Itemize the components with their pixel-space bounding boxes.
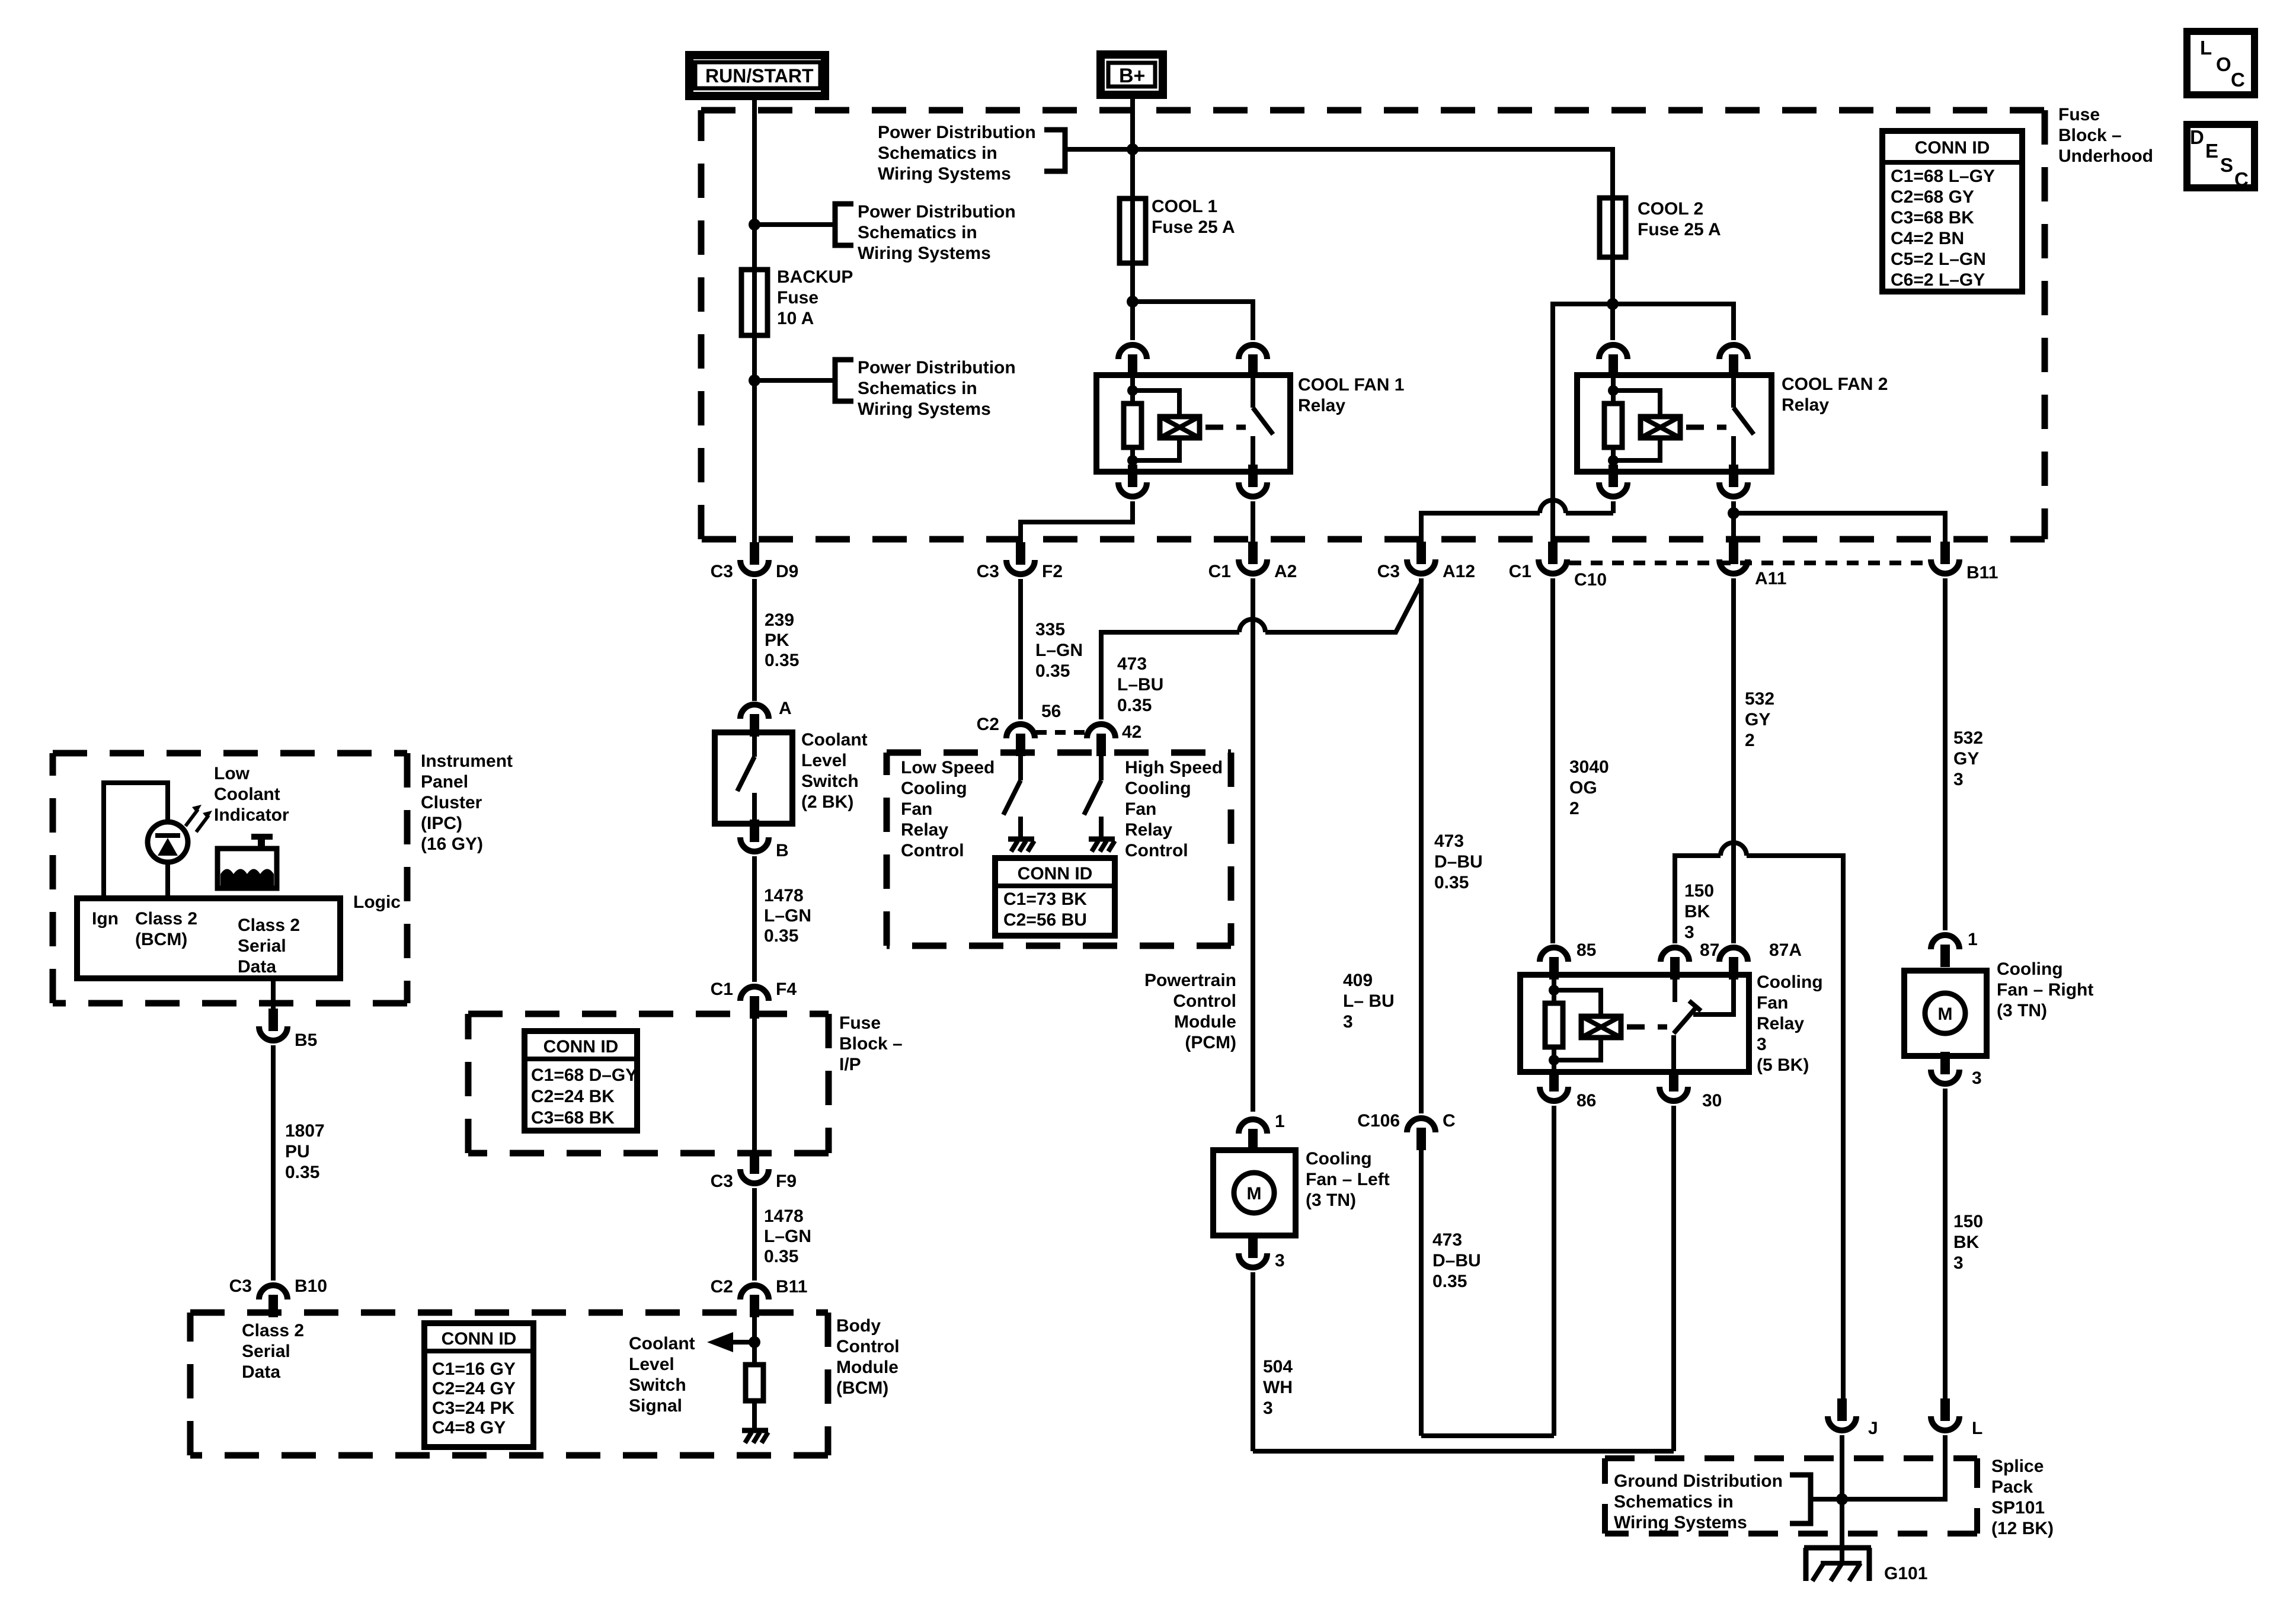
svg-text:Ign: Ign: [92, 909, 119, 929]
svg-text:Coolant: Coolant: [214, 785, 280, 804]
svg-text:Splice: Splice: [1991, 1457, 2044, 1476]
svg-text:GY: GY: [1745, 710, 1770, 729]
node relay 1 coil bottom junction: [1127, 455, 1138, 466]
fuse COOL 1 25 A: [1120, 199, 1146, 263]
connector C3 A12: [1416, 542, 1426, 564]
svg-text:Control: Control: [1173, 991, 1236, 1011]
svg-text:CONN ID: CONN ID: [442, 1329, 517, 1349]
svg-text:Level: Level: [629, 1355, 674, 1374]
svg-text:150: 150: [1953, 1212, 1983, 1231]
svg-text:COOL FAN 2: COOL FAN 2: [1782, 375, 1888, 394]
svg-text:OG: OG: [1569, 778, 1597, 798]
relay 2 coil resistor: [1611, 375, 1616, 404]
svg-text:Signal: Signal: [629, 1396, 682, 1416]
svg-text:Schematics in: Schematics in: [858, 379, 977, 398]
wire branch to B11: [1734, 513, 1945, 543]
svg-text:Class 2: Class 2: [242, 1321, 304, 1340]
wire 30 down to 504 WH run: [1671, 1106, 1676, 1451]
wire A12 down to C106: [1419, 578, 1424, 1113]
relay 3 coil-switch link (dashed): [1627, 1025, 1667, 1030]
svg-text:3: 3: [1684, 923, 1694, 942]
svg-text:COOL 2: COOL 2: [1638, 199, 1703, 219]
svg-text:C2=24 GY: C2=24 GY: [432, 1379, 516, 1398]
svg-text:I/P: I/P: [839, 1055, 861, 1074]
svg-text:Relay: Relay: [1757, 1014, 1804, 1033]
wire B down to F4 (1478 L-GN): [752, 856, 757, 982]
svg-text:S: S: [2220, 154, 2233, 176]
svg-text:C2: C2: [977, 715, 999, 734]
wire fan right down to splice L (150 BK): [1943, 1089, 1948, 1400]
relay 2 coil-switch link (dashed): [1686, 425, 1726, 430]
svg-text:335: 335: [1035, 620, 1065, 639]
svg-text:409: 409: [1343, 971, 1373, 990]
svg-text:3: 3: [1343, 1012, 1353, 1032]
brace power distribution ref 3: [835, 360, 853, 401]
wire L to splice node: [1842, 1435, 1945, 1499]
logic box IPC: [77, 898, 340, 978]
svg-text:3: 3: [1263, 1398, 1273, 1418]
svg-text:Schematics in: Schematics in: [858, 223, 977, 242]
wire F4 to F9 inside fuse block: [752, 1016, 757, 1153]
wire brace to splice node: [1811, 1497, 1842, 1502]
svg-text:3: 3: [1953, 1253, 1964, 1273]
connector C2 56: [1016, 734, 1025, 756]
svg-text:473: 473: [1117, 654, 1147, 674]
connector pin relay 2 switch bottom: [1729, 465, 1738, 487]
svg-text:(5 BK): (5 BK): [1757, 1055, 1809, 1075]
svg-text:WH: WH: [1263, 1378, 1293, 1397]
connector B coolant level switch: [750, 820, 759, 842]
svg-text:Serial: Serial: [242, 1342, 290, 1361]
connector row dotted line C10-A11-B11: [1569, 561, 1929, 565]
svg-text:C3=24 PK: C3=24 PK: [432, 1398, 515, 1418]
svg-text:Fan – Left: Fan – Left: [1306, 1170, 1390, 1189]
svg-text:3: 3: [1972, 1068, 1982, 1088]
svg-text:C1=73 BK: C1=73 BK: [1003, 889, 1087, 909]
wire splice to G101: [1840, 1499, 1844, 1564]
relay 3 switch blade: [1674, 1007, 1696, 1033]
relay 3 coil resistor: [1552, 975, 1556, 1003]
svg-text:B: B: [776, 841, 789, 860]
fuse COOL 2 25 A: [1600, 198, 1626, 257]
svg-text:Schematics in: Schematics in: [878, 143, 997, 163]
svg-text:GY: GY: [1953, 749, 1979, 769]
component coolant level switch box: [715, 732, 792, 824]
connector L splice pack: [1940, 1398, 1950, 1421]
connector pin relay 2 coil top: [1609, 354, 1618, 377]
connector C1 F4: [750, 996, 759, 1019]
svg-text:E: E: [2205, 140, 2218, 162]
svg-text:Relay: Relay: [1782, 395, 1829, 415]
relay cooling fan relay 3 box: [1520, 975, 1749, 1072]
svg-text:C4=2 BN: C4=2 BN: [1891, 229, 1964, 248]
svg-text:473: 473: [1434, 831, 1464, 851]
svg-text:C1=68 L–GY: C1=68 L–GY: [1891, 167, 1995, 186]
coolant level switch contacts: [752, 735, 757, 757]
svg-text:1: 1: [1968, 930, 1978, 949]
node relay 2 coil bottom junction: [1608, 455, 1619, 466]
node relay 3 coil bottom junction: [1549, 1055, 1559, 1065]
wire fan left to 504 WH run: [1251, 1272, 1255, 1451]
wire C106 down (473 D-BU): [1419, 1149, 1424, 1436]
svg-text:Fan: Fan: [901, 799, 932, 819]
svg-text:Cooling: Cooling: [1997, 959, 2063, 979]
svg-text:C2=24 BK: C2=24 BK: [531, 1087, 615, 1106]
svg-text:Cluster: Cluster: [421, 793, 482, 812]
svg-text:C1: C1: [1509, 562, 1531, 581]
svg-text:Wiring Systems: Wiring Systems: [1614, 1513, 1747, 1532]
relay COOL FAN 1 box: [1096, 375, 1290, 472]
svg-text:2: 2: [1745, 731, 1755, 750]
connector 1 cooling fan left: [1248, 1129, 1258, 1151]
svg-text:0.35: 0.35: [764, 926, 798, 946]
connector C3 F9: [750, 1151, 759, 1174]
svg-text:504: 504: [1263, 1357, 1293, 1377]
dashed box Instrument Panel Cluster: [53, 750, 407, 757]
svg-text:A12: A12: [1443, 562, 1475, 581]
wire Ign loop in IPC: [104, 783, 168, 898]
svg-text:(BCM): (BCM): [135, 930, 187, 949]
power feed box RUN/START: [689, 55, 825, 96]
connector C106 C: [1416, 1128, 1426, 1150]
svg-text:Low Speed: Low Speed: [901, 758, 994, 777]
svg-text:F2: F2: [1042, 562, 1063, 581]
svg-text:Fuse 25 A: Fuse 25 A: [1638, 220, 1721, 239]
svg-text:Wiring Systems: Wiring Systems: [878, 164, 1011, 184]
svg-text:0.35: 0.35: [1035, 661, 1070, 681]
svg-text:1807: 1807: [285, 1121, 325, 1141]
wire B5 down to B10 (1807 PU): [271, 1045, 276, 1281]
svg-text:L: L: [1972, 1419, 1982, 1438]
svg-text:BK: BK: [1684, 902, 1710, 921]
svg-text:(PCM): (PCM): [1185, 1033, 1236, 1052]
power feed box B+: [1101, 55, 1163, 95]
indicator lamp low coolant (LED): [148, 822, 188, 862]
svg-text:(IPC): (IPC): [421, 814, 462, 833]
svg-text:30: 30: [1702, 1091, 1722, 1110]
CONN ID table BCM: [424, 1323, 533, 1447]
svg-text:0.35: 0.35: [765, 651, 799, 670]
svg-text:Control: Control: [901, 841, 964, 860]
wire C10 down to relay 3 coil 85 (3040 OG 2): [1550, 578, 1555, 943]
svg-text:3: 3: [1953, 770, 1964, 789]
svg-text:42: 42: [1122, 722, 1141, 742]
svg-text:B11: B11: [776, 1277, 807, 1297]
svg-text:J: J: [1868, 1419, 1878, 1438]
svg-text:10 A: 10 A: [777, 309, 814, 328]
svg-text:PU: PU: [285, 1142, 310, 1161]
svg-text:Module: Module: [1174, 1012, 1236, 1032]
svg-text:C2=68 GY: C2=68 GY: [1891, 187, 1974, 207]
svg-text:(12 BK): (12 BK): [1991, 1519, 2054, 1538]
wire 473 D-BU to relay 3 coil (horizontal): [1421, 1433, 1554, 1438]
svg-text:C3: C3: [1377, 562, 1400, 581]
svg-text:C: C: [1443, 1111, 1456, 1131]
svg-text:C1: C1: [1208, 562, 1231, 581]
svg-text:B+: B+: [1119, 65, 1145, 87]
relay 2 switch: [1731, 375, 1736, 408]
svg-text:Coolant: Coolant: [801, 730, 868, 750]
svg-text:D9: D9: [776, 562, 798, 581]
node junction relay 2 switch output: [1728, 507, 1739, 519]
node junction on RUN/START wire (branch 3): [749, 375, 760, 386]
svg-text:Fuse: Fuse: [777, 288, 818, 308]
svg-text:C3=68 BK: C3=68 BK: [1891, 208, 1974, 228]
relay 1 solenoid coil symbol: [1133, 391, 1179, 417]
connector pin 87A relay 3: [1729, 957, 1738, 980]
svg-text:D–BU: D–BU: [1432, 1251, 1481, 1270]
ground low speed relay control: [1008, 837, 1034, 842]
ground high speed relay control: [1089, 837, 1115, 842]
relay 1 switch: [1251, 375, 1255, 408]
svg-text:CONN ID: CONN ID: [1018, 864, 1093, 884]
connector A coolant level switch: [750, 714, 759, 737]
connector pin relay 1 coil top: [1128, 354, 1137, 377]
svg-text:C1=68 D–GY: C1=68 D–GY: [531, 1065, 637, 1085]
svg-text:1478: 1478: [764, 886, 804, 905]
svg-text:0.35: 0.35: [1117, 696, 1152, 715]
svg-text:Class 2: Class 2: [135, 909, 197, 929]
wire branch to relay 1 switch: [1133, 302, 1253, 340]
connector C3 D9: [750, 542, 759, 565]
svg-text:Fuse: Fuse: [2058, 105, 2100, 124]
svg-text:Fuse: Fuse: [839, 1013, 881, 1033]
wire B+ feed down: [1130, 95, 1135, 340]
wire branch to relay 2 switch: [1613, 304, 1734, 340]
node relay 1 coil top junction: [1127, 385, 1138, 396]
svg-text:L–GN: L–GN: [764, 1227, 811, 1246]
svg-text:(BCM): (BCM): [836, 1378, 888, 1398]
svg-text:Power Distribution: Power Distribution: [878, 123, 1036, 142]
svg-text:C: C: [2231, 69, 2245, 91]
svg-text:Class 2: Class 2: [238, 916, 300, 935]
svg-text:L–BU: L–BU: [1117, 675, 1163, 694]
svg-text:Cooling: Cooling: [1125, 779, 1191, 798]
resistor BCM pull-up: [746, 1365, 763, 1401]
svg-text:(16 GY): (16 GY): [421, 834, 483, 854]
connector 3 cooling fan left: [1248, 1235, 1258, 1258]
svg-text:Relay: Relay: [1298, 396, 1345, 415]
svg-text:G101: G101: [1884, 1564, 1927, 1583]
svg-text:BK: BK: [1953, 1233, 1980, 1252]
svg-text:Instrument: Instrument: [421, 751, 513, 771]
svg-text:A2: A2: [1274, 562, 1297, 581]
svg-text:Cooling: Cooling: [901, 779, 967, 798]
relay 3 switch 87 contact stub: [1673, 975, 1677, 1002]
svg-text:D: D: [2190, 126, 2204, 148]
svg-text:(3 TN): (3 TN): [1997, 1001, 2047, 1020]
CONN ID table PCM: [995, 858, 1115, 936]
motor cooling fan right: [1904, 971, 1987, 1056]
connector pin relay 2 coil bottom: [1609, 465, 1618, 487]
LOC legend box: [2187, 31, 2255, 95]
svg-text:C10: C10: [1574, 570, 1607, 590]
connector pin 85 relay 3: [1549, 957, 1559, 980]
svg-text:A11: A11: [1755, 569, 1786, 588]
svg-text:COOL 1: COOL 1: [1152, 197, 1217, 216]
connector C3 F2: [1016, 542, 1025, 565]
svg-text:High Speed: High Speed: [1125, 758, 1223, 777]
svg-text:C3: C3: [229, 1276, 252, 1296]
svg-text:Fan – Right: Fan – Right: [1997, 980, 2093, 1000]
svg-text:B11: B11: [1966, 563, 1998, 582]
relay 3 solenoid coil symbol: [1554, 990, 1601, 1016]
wire relay 1 switch to A2: [1251, 501, 1255, 543]
DESC legend box: [2187, 124, 2255, 188]
svg-text:C6=2 L–GY: C6=2 L–GY: [1891, 270, 1985, 290]
wire logic to B5: [271, 978, 276, 1010]
svg-text:473: 473: [1432, 1230, 1462, 1250]
ground G101: [1804, 1545, 1871, 1551]
wire J to splice node: [1840, 1435, 1844, 1499]
svg-text:532: 532: [1953, 728, 1983, 748]
svg-text:Data: Data: [238, 957, 276, 977]
CONN ID table Fuse Block - Underhood: [1882, 131, 2022, 292]
arrow coolant level switch signal: [733, 1340, 754, 1345]
icon coolant tank: [258, 838, 265, 849]
svg-text:Data: Data: [242, 1362, 280, 1382]
wire relay 2 coil to A12 (with hop over C10 wire): [1611, 501, 1616, 513]
connector J splice pack: [1837, 1398, 1847, 1421]
svg-text:C5=2 L–GN: C5=2 L–GN: [1891, 249, 1986, 269]
svg-text:Pack: Pack: [1991, 1477, 2033, 1497]
dashed box Fuse Block - I/P: [468, 1011, 829, 1017]
wire branch to power distribution ref 2: [754, 222, 835, 227]
wire 473 L-BU from PCM 42 to A12 (hop over A2 wire): [1101, 632, 1239, 719]
relay 2 solenoid coil symbol: [1613, 391, 1660, 417]
brace ground distribution ref: [1790, 1475, 1811, 1523]
relay 3 switch 30 stub: [1671, 1035, 1676, 1072]
connector C3 B10: [268, 1295, 278, 1317]
svg-text:C1=16 GY: C1=16 GY: [432, 1359, 516, 1379]
svg-text:Logic: Logic: [353, 892, 401, 912]
svg-text:Panel: Panel: [421, 772, 468, 792]
svg-text:3040: 3040: [1569, 757, 1609, 777]
connector B5: [268, 1009, 278, 1031]
relay 1 coil resistor: [1130, 375, 1135, 404]
dashed box Fuse Block - Underhood: [701, 107, 2045, 114]
motor cooling fan left: [1213, 1150, 1296, 1235]
connector 42: [1096, 734, 1106, 756]
lamp light rays: [186, 809, 198, 826]
wire 86 down to 473 junction: [1552, 1106, 1556, 1436]
svg-text:C3: C3: [711, 1172, 733, 1191]
connector C1 A2: [1248, 542, 1258, 564]
svg-text:D–BU: D–BU: [1434, 852, 1483, 872]
svg-text:C4=8 GY: C4=8 GY: [432, 1418, 506, 1438]
fuse BACKUP 10 A: [741, 270, 768, 335]
svg-text:M: M: [1938, 1004, 1953, 1024]
relay COOL FAN 2 box: [1577, 375, 1771, 472]
node relay 3 coil top junction: [1549, 985, 1559, 996]
brace power distribution ref 2: [835, 204, 853, 245]
svg-text:3: 3: [1757, 1035, 1767, 1054]
svg-text:Schematics in: Schematics in: [1614, 1492, 1734, 1512]
svg-text:87A: 87A: [1769, 940, 1802, 960]
connector pin 87 relay 3: [1670, 957, 1680, 980]
node junction of B+ wire and bus: [1127, 143, 1139, 155]
svg-text:B5: B5: [295, 1030, 317, 1050]
connector pin relay 1 coil bottom: [1128, 465, 1137, 487]
svg-text:C2: C2: [711, 1277, 733, 1297]
svg-text:(2 BK): (2 BK): [801, 792, 853, 812]
svg-text:532: 532: [1745, 689, 1774, 709]
wire relay 1 coil to F2: [1021, 501, 1133, 543]
svg-text:Wiring Systems: Wiring Systems: [858, 244, 991, 263]
svg-text:Serial: Serial: [238, 936, 286, 956]
connector B11: [1940, 542, 1950, 564]
connector 1 cooling fan right: [1940, 945, 1950, 967]
svg-text:PK: PK: [765, 630, 789, 650]
svg-text:Cooling: Cooling: [1306, 1149, 1372, 1169]
wire branch to power distribution ref 3: [754, 378, 835, 383]
svg-text:2: 2: [1569, 799, 1579, 818]
svg-text:(3 TN): (3 TN): [1306, 1190, 1356, 1210]
svg-text:C3: C3: [711, 562, 733, 581]
wire resistor to ground: [752, 1401, 757, 1429]
svg-text:Relay: Relay: [1125, 820, 1172, 840]
wire F9 down to BCM B11 (1478 L-GN): [752, 1188, 757, 1281]
svg-text:Powertrain: Powertrain: [1144, 971, 1236, 990]
connector pin 30 relay 3: [1669, 1069, 1678, 1092]
svg-text:Control: Control: [836, 1337, 900, 1356]
wire 87 to splice J (150 BK, hop over A11 wire): [1675, 856, 1721, 943]
svg-text:Low: Low: [214, 764, 250, 783]
connector pin relay 1 switch bottom: [1248, 465, 1258, 487]
relay 1 coil-switch link (dashed): [1205, 425, 1246, 430]
connector pin 86 relay 3: [1549, 1069, 1559, 1092]
svg-text:Switch: Switch: [629, 1375, 686, 1395]
svg-text:Body: Body: [836, 1316, 881, 1336]
relay 3 switch 87A contact: [1693, 975, 1734, 1014]
svg-text:Switch: Switch: [801, 772, 859, 791]
wire B11 down to cooling fan right (532 GY 3): [1943, 578, 1948, 930]
svg-text:Fan: Fan: [1125, 799, 1156, 819]
svg-text:BACKUP: BACKUP: [777, 267, 853, 287]
svg-text:87: 87: [1700, 940, 1719, 960]
svg-text:Power Distribution: Power Distribution: [858, 202, 1016, 222]
svg-text:Relay: Relay: [901, 820, 948, 840]
svg-text:CONN ID: CONN ID: [1915, 138, 1990, 158]
connector C2 B11 (BCM): [750, 1295, 759, 1317]
svg-text:Control: Control: [1125, 841, 1188, 860]
switch low speed cooling fan relay control: [1018, 755, 1023, 780]
node junction on RUN/START wire (branch 2): [749, 219, 760, 231]
wire D9 to coolant level switch pin A: [752, 579, 757, 701]
svg-text:Level: Level: [801, 751, 847, 770]
svg-text:0.35: 0.35: [1434, 873, 1469, 892]
svg-text:L–GN: L–GN: [1035, 641, 1083, 660]
svg-text:C3: C3: [977, 562, 999, 581]
svg-text:CONN ID: CONN ID: [543, 1037, 619, 1057]
svg-text:Coolant: Coolant: [629, 1334, 695, 1353]
svg-text:239: 239: [765, 610, 794, 630]
svg-text:0.35: 0.35: [285, 1163, 319, 1182]
switch high speed cooling fan relay control: [1099, 755, 1104, 780]
svg-text:C2=56 BU: C2=56 BU: [1003, 910, 1087, 930]
svg-text:Power Distribution: Power Distribution: [858, 358, 1016, 377]
dashed box Splice Pack SP101: [1605, 1455, 1977, 1461]
node splice SP101: [1836, 1493, 1848, 1505]
svg-text:1478: 1478: [764, 1206, 804, 1226]
node junction coolant level switch signal: [749, 1336, 760, 1348]
connector A11: [1729, 542, 1738, 564]
wire branch feed down to C10: [1553, 304, 1613, 543]
svg-text:C: C: [2234, 168, 2249, 190]
svg-text:3: 3: [1275, 1251, 1285, 1270]
svg-text:Wiring Systems: Wiring Systems: [858, 399, 991, 419]
svg-text:Module: Module: [836, 1358, 898, 1377]
